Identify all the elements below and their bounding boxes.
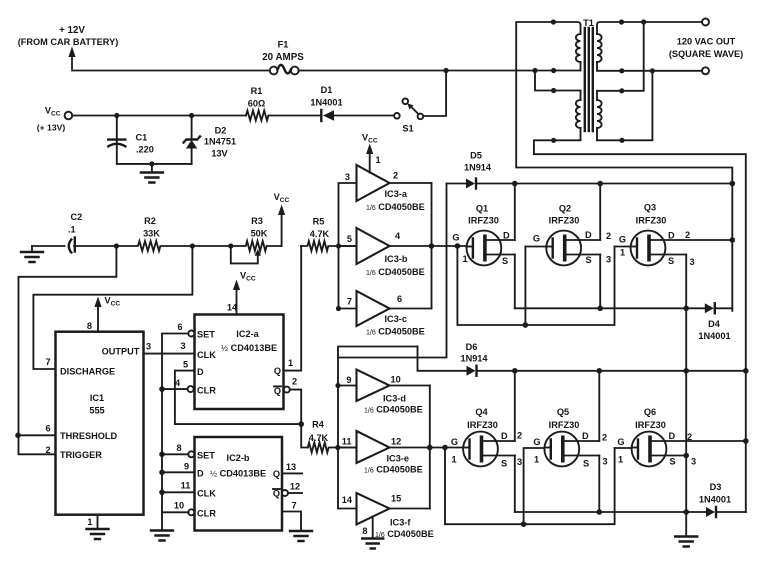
svg-text:CLK: CLK xyxy=(197,489,216,499)
wire secondary top lead to output terminal xyxy=(597,22,702,34)
svg-text:2: 2 xyxy=(45,445,50,455)
junction C1 xyxy=(114,113,119,118)
svg-text:Q1: Q1 xyxy=(476,204,488,214)
transistor Q2 IRFZ30 xyxy=(533,204,611,266)
svg-text:G: G xyxy=(533,437,540,447)
svg-text:120 VAC OUT: 120 VAC OUT xyxy=(677,37,736,47)
junction def outputs xyxy=(427,445,433,451)
wire S1 riser xyxy=(423,71,446,117)
resistor R4 4.7K xyxy=(308,420,357,453)
junction abc outputs xyxy=(429,243,435,249)
junction source tie xyxy=(683,368,689,374)
pin 10 CLR bubble xyxy=(188,509,194,515)
pin 14 Vcc arrow of IC2-a xyxy=(227,271,256,315)
winding lead dot xyxy=(551,138,556,143)
junction CLR bus xyxy=(159,386,165,392)
potentiometer R3 50K xyxy=(231,216,282,263)
svg-text:D6: D6 xyxy=(466,342,478,352)
svg-text:2: 2 xyxy=(606,231,611,241)
junction ground tie xyxy=(683,509,689,515)
wire secondary bottom winding top lead tie xyxy=(597,22,644,100)
svg-text:8: 8 xyxy=(176,443,181,453)
transformer T1 primary bottom winding xyxy=(576,100,581,128)
svg-text:IRFZ30: IRFZ30 xyxy=(549,420,580,430)
junction Q1 gate xyxy=(455,243,461,249)
ground sources xyxy=(675,537,697,547)
wire IC3 def input bus xyxy=(338,347,418,509)
svg-text:1N914: 1N914 xyxy=(464,163,492,173)
junction D2 xyxy=(189,113,194,118)
svg-text:7: 7 xyxy=(45,357,50,367)
fuse F1 xyxy=(262,40,304,75)
node 120 VAC output terminal bottom xyxy=(702,67,709,74)
switch S1 xyxy=(394,99,423,134)
svg-text:12: 12 xyxy=(290,482,300,492)
svg-text:3: 3 xyxy=(690,257,695,267)
ground IC2-b pin7 xyxy=(290,531,312,541)
svg-text:G: G xyxy=(452,233,459,243)
svg-text:13V: 13V xyxy=(211,149,228,159)
junction Q3 source xyxy=(683,306,689,312)
capacitor C2 .1 xyxy=(68,212,116,253)
pin 1 Vcc arrow of IC3 xyxy=(362,133,381,173)
wire CLR to ground bus xyxy=(162,388,188,390)
wire gate loop top row xyxy=(457,246,614,325)
wire Q2 gate riser xyxy=(525,247,546,326)
resistor R2 33K xyxy=(116,216,230,251)
svg-text:9: 9 xyxy=(346,375,351,385)
svg-text:CLK: CLK xyxy=(197,350,216,360)
buffer IC3-d xyxy=(346,370,422,415)
svg-text:IRFZ30: IRFZ30 xyxy=(635,420,666,430)
junction Q1 drain xyxy=(512,181,518,187)
svg-text:2: 2 xyxy=(393,171,398,181)
svg-text:D: D xyxy=(585,230,592,240)
svg-text:1: 1 xyxy=(620,248,625,258)
svg-text:SET: SET xyxy=(197,451,215,461)
diode D3 1N4001 xyxy=(699,482,746,517)
pin 8 Vcc arrow of IC1 xyxy=(87,296,121,332)
svg-text:1N4751: 1N4751 xyxy=(204,137,236,147)
wire gate bus Q4 xyxy=(390,447,464,449)
wire IC3-d output xyxy=(390,385,430,387)
svg-text:D: D xyxy=(668,231,675,241)
svg-text:C1: C1 xyxy=(136,133,148,143)
wire fuse to transformer center tap xyxy=(299,70,581,72)
junction SET bus xyxy=(159,452,165,458)
svg-text:3: 3 xyxy=(691,457,696,467)
wire Vcc rail xyxy=(72,115,246,117)
pin 2 Qbar bubble xyxy=(284,387,290,393)
svg-text:IC3-a: IC3-a xyxy=(385,189,408,199)
svg-text:½ CD4013BE: ½ CD4013BE xyxy=(210,469,266,479)
svg-text:IRFZ30: IRFZ30 xyxy=(549,216,580,226)
svg-text:IRFZ30: IRFZ30 xyxy=(636,216,667,226)
op IC2-b CD4013BE box xyxy=(195,437,283,531)
svg-text:3: 3 xyxy=(180,341,185,351)
svg-text:8: 8 xyxy=(87,321,92,331)
wire secondary bottom winding bottom lead tie xyxy=(597,71,652,141)
junction IC3-d input xyxy=(335,383,340,388)
pin 3 output wire 555 to IC2-a CLK xyxy=(144,353,195,355)
ground C2 xyxy=(21,246,43,262)
wire IC3-a output xyxy=(390,182,432,184)
svg-text:Q6: Q6 xyxy=(644,407,656,417)
svg-text:½ CD4013BE: ½ CD4013BE xyxy=(221,343,277,353)
wire Q4 drain riser xyxy=(514,371,516,441)
svg-text:1: 1 xyxy=(534,455,539,465)
wire CLR to bus xyxy=(162,511,188,513)
wire threshold stub xyxy=(19,434,56,436)
svg-text:TRIGGER: TRIGGER xyxy=(60,450,102,460)
winding lead dot xyxy=(551,19,556,24)
svg-text:20 AMPS: 20 AMPS xyxy=(262,52,304,63)
svg-text:1/6 CD4050BE: 1/6 CD4050BE xyxy=(366,267,425,277)
wire center tap jog xyxy=(535,71,581,91)
wire Q3 source / ground tie xyxy=(685,255,687,537)
junction D bus xyxy=(159,470,165,476)
svg-text:S: S xyxy=(502,256,508,266)
wire primary top winding bottom lead xyxy=(580,62,582,71)
junction Q4 drain xyxy=(512,368,518,374)
wire IC3-c output xyxy=(390,308,432,310)
node +12V supply arrow xyxy=(18,25,119,69)
wire IC3-b input xyxy=(339,245,357,247)
wire drain bus Q1-Q3 xyxy=(477,183,732,185)
junction center-tap jog xyxy=(532,68,537,73)
diode D6 1N914 xyxy=(460,342,488,376)
wire Q2 drain riser xyxy=(599,184,601,241)
junction R3 wiper xyxy=(228,243,233,248)
pin 1 Q output wire to R5 xyxy=(284,246,302,371)
svg-text:5: 5 xyxy=(183,360,188,370)
svg-text:(+ 13V): (+ 13V) xyxy=(37,123,66,133)
svg-text:SET: SET xyxy=(197,330,215,340)
wire Q6 gate xyxy=(615,447,632,449)
junction Q2 source xyxy=(597,306,603,312)
buffer IC3-f xyxy=(342,493,434,539)
buffer IC3-c xyxy=(347,291,425,337)
wire secondary top winding bottom lead to output terminal xyxy=(597,62,702,71)
transformer T1 primary top winding xyxy=(576,34,581,62)
wire Qbar to R4 net xyxy=(290,390,301,425)
svg-text:60Ω: 60Ω xyxy=(248,99,266,109)
svg-text:IC3-b: IC3-b xyxy=(385,254,408,264)
transformer T1 core xyxy=(583,18,594,131)
svg-text:(FROM CAR BATTERY): (FROM CAR BATTERY) xyxy=(18,37,119,47)
wire IC3 abc input bus xyxy=(339,183,357,309)
svg-text:R5: R5 xyxy=(313,217,325,227)
svg-text:D3: D3 xyxy=(710,482,722,492)
svg-text:1/6 CD4050BE: 1/6 CD4050BE xyxy=(366,202,425,212)
wire def output tie xyxy=(429,386,431,509)
svg-text:IC3-f: IC3-f xyxy=(390,518,411,528)
svg-text:3: 3 xyxy=(603,457,608,467)
wire SET to bus xyxy=(162,453,188,455)
svg-text:6: 6 xyxy=(177,322,182,332)
transistor Q1 IRFZ30 xyxy=(452,204,514,267)
junction secondary parallel tie xyxy=(650,68,655,73)
svg-text:G: G xyxy=(451,437,458,447)
svg-text:6: 6 xyxy=(397,294,402,304)
junction Q5 source xyxy=(597,509,603,515)
wire IC3-f output xyxy=(390,508,430,510)
svg-text:Q5: Q5 xyxy=(557,407,569,417)
svg-text:D: D xyxy=(197,469,204,479)
diode D5 1N914 xyxy=(447,151,492,189)
svg-text:1: 1 xyxy=(288,358,293,368)
wire gate bus Q1 xyxy=(390,245,468,247)
junction Qbar/D loop xyxy=(298,421,304,427)
junction CLK bus xyxy=(159,490,165,496)
wire source line Q1-Q3 xyxy=(515,307,705,309)
svg-text:S: S xyxy=(668,256,674,266)
junction Q6 source xyxy=(683,453,689,459)
svg-text:Q2: Q2 xyxy=(559,204,571,214)
svg-text:7: 7 xyxy=(347,297,352,307)
svg-text:1: 1 xyxy=(376,155,381,165)
svg-text:S: S xyxy=(583,459,589,469)
svg-text:S: S xyxy=(670,457,676,467)
resistor R5 4.7K xyxy=(301,217,357,252)
ground IC2 bus xyxy=(151,531,173,541)
transistor Q6 IRFZ30 xyxy=(617,407,745,467)
svg-text:1/6 CD4050BE: 1/6 CD4050BE xyxy=(366,327,425,337)
svg-text:1N4001: 1N4001 xyxy=(699,495,731,505)
pin 7 wire to ground xyxy=(282,512,301,532)
svg-text:11: 11 xyxy=(342,437,352,447)
svg-text:IC2-b: IC2-b xyxy=(227,453,250,463)
svg-text:D1: D1 xyxy=(321,85,333,95)
svg-text:OUTPUT: OUTPUT xyxy=(102,347,140,357)
junction R2-R3 xyxy=(190,243,195,248)
svg-text:1N914: 1N914 xyxy=(460,354,488,364)
junction Q4 gate xyxy=(442,445,448,451)
wire R1 to D1 xyxy=(268,115,320,117)
svg-text:1N4001: 1N4001 xyxy=(310,98,342,108)
svg-text:10: 10 xyxy=(174,501,184,511)
wire SET to ground bus xyxy=(162,334,188,531)
pin 4 CLR bubble xyxy=(188,386,194,392)
svg-text:G: G xyxy=(619,235,626,245)
wire +12V to fuse xyxy=(72,70,270,72)
svg-text:G: G xyxy=(533,234,540,244)
svg-text:12: 12 xyxy=(391,437,401,447)
wire to R4 xyxy=(301,424,308,447)
buffer IC3-b xyxy=(347,228,425,277)
wire Q2 source drop xyxy=(599,255,601,309)
svg-text:D: D xyxy=(501,431,508,441)
svg-text:R1: R1 xyxy=(251,86,263,96)
svg-text:4: 4 xyxy=(395,231,401,241)
wire D5 anode path xyxy=(338,184,447,358)
wire Q5 drain riser xyxy=(598,371,600,441)
svg-text:3: 3 xyxy=(517,457,522,467)
buffer IC3-a xyxy=(345,165,425,212)
svg-text:CLR: CLR xyxy=(197,509,216,519)
winding lead dot xyxy=(619,88,624,93)
svg-text:Q: Q xyxy=(273,489,280,499)
junction C2-R2 xyxy=(114,243,119,248)
svg-text:IC3-e: IC3-e xyxy=(387,454,409,464)
node Vcc terminal xyxy=(37,106,72,133)
junction threshold xyxy=(15,433,21,439)
svg-text:+ 12V: + 12V xyxy=(59,25,85,36)
wire IC3-d input xyxy=(338,385,357,387)
svg-text:IRFZ30: IRFZ30 xyxy=(468,216,499,226)
svg-text:13: 13 xyxy=(286,462,296,472)
transformer T1 secondary top winding xyxy=(597,34,602,62)
wire threshold/trigger net xyxy=(19,246,117,454)
wire Q5 gate riser xyxy=(524,448,545,524)
pin 12 Qbar bubble xyxy=(282,490,288,496)
wire ground to C2 xyxy=(32,245,65,247)
svg-text:T1: T1 xyxy=(583,18,594,28)
junction C1 ground xyxy=(149,161,154,166)
svg-text:8: 8 xyxy=(362,526,367,536)
svg-text:33K: 33K xyxy=(143,229,160,239)
winding lead dot xyxy=(551,88,556,93)
junction Q6 drain xyxy=(743,438,749,444)
svg-text:DISCHARGE: DISCHARGE xyxy=(60,367,115,377)
winding lead dot xyxy=(619,19,624,24)
svg-text:4.7K: 4.7K xyxy=(309,433,329,443)
svg-text:1: 1 xyxy=(618,455,623,465)
winding lead dot xyxy=(619,68,624,73)
wire drain bus Q4-Q6 xyxy=(478,370,746,372)
svg-text:15: 15 xyxy=(391,494,401,504)
pin 8 ground of IC3 xyxy=(362,517,383,549)
junction Q2 gate loop xyxy=(523,322,529,328)
svg-text:Q3: Q3 xyxy=(644,203,656,213)
svg-text:G: G xyxy=(617,437,624,447)
node 120 VAC output terminal top xyxy=(702,19,709,26)
svg-text:S: S xyxy=(586,255,592,265)
diode D4 1N4001 xyxy=(698,303,732,341)
wire IC3-e input xyxy=(338,447,357,449)
svg-text:9: 9 xyxy=(184,462,189,472)
wire D6 anode path xyxy=(418,347,467,371)
pin 13 Q stub wire xyxy=(282,472,302,474)
svg-text:50K: 50K xyxy=(251,229,268,239)
svg-text:2: 2 xyxy=(602,433,607,443)
node 120 VAC OUT label xyxy=(669,37,743,60)
svg-text:C2: C2 xyxy=(71,212,83,222)
capacitor C1 .220 xyxy=(108,116,191,164)
svg-text:IC2-a: IC2-a xyxy=(236,329,259,339)
svg-text:IC1: IC1 xyxy=(90,393,104,403)
svg-text:IC3-c: IC3-c xyxy=(385,314,407,324)
pin 6 SET bubble xyxy=(188,331,194,337)
junction secondary parallel tie xyxy=(641,19,646,24)
pin 8 SET bubble xyxy=(188,451,194,457)
svg-text:S1: S1 xyxy=(402,124,413,134)
winding lead dot xyxy=(619,138,624,143)
svg-text:D: D xyxy=(669,431,676,441)
svg-text:1/6 CD4050BE: 1/6 CD4050BE xyxy=(364,465,423,475)
svg-text:IC3-d: IC3-d xyxy=(383,394,406,404)
svg-text:3: 3 xyxy=(606,255,611,265)
wire primary top lead to drain bus Q1-Q3 xyxy=(516,22,732,311)
junction bottom bus to winding xyxy=(743,368,749,374)
wire Q1 source drop xyxy=(514,255,516,309)
svg-text:D5: D5 xyxy=(470,151,482,161)
op IC1 555 timer box xyxy=(56,332,144,515)
svg-text:2: 2 xyxy=(517,431,522,441)
svg-text:(SQUARE WAVE): (SQUARE WAVE) xyxy=(669,49,743,59)
svg-text:4: 4 xyxy=(175,378,181,388)
junction S1 riser xyxy=(444,68,449,73)
svg-text:D: D xyxy=(197,367,204,377)
svg-text:11: 11 xyxy=(181,481,191,491)
transformer T1 secondary bottom winding xyxy=(597,100,602,128)
junction Q5 gate loop xyxy=(521,521,527,527)
svg-text:14: 14 xyxy=(342,495,353,505)
svg-text:R4: R4 xyxy=(312,420,325,430)
svg-text:.220: .220 xyxy=(136,145,154,155)
svg-text:1: 1 xyxy=(452,455,457,465)
op IC2-a CD4013BE box xyxy=(195,315,284,410)
svg-text:4.7K: 4.7K xyxy=(310,229,330,239)
junction R5 output bus xyxy=(336,243,341,248)
wire abc output tie xyxy=(431,183,433,309)
svg-text:5: 5 xyxy=(347,234,352,244)
wire D feedback loop xyxy=(175,371,301,425)
buffer IC3-e xyxy=(342,431,423,475)
svg-text:Q: Q xyxy=(273,469,280,479)
svg-text:F1: F1 xyxy=(278,40,289,50)
svg-text:2: 2 xyxy=(687,432,692,442)
wire gate loop bottom row xyxy=(445,448,615,525)
svg-text:2: 2 xyxy=(685,230,690,240)
svg-text:R2: R2 xyxy=(144,216,156,226)
svg-text:THRESHOLD: THRESHOLD xyxy=(60,431,118,441)
svg-text:.1: .1 xyxy=(68,225,76,235)
wire Q4 source drop xyxy=(514,456,516,513)
transistor Q3 IRFZ30 xyxy=(619,203,732,268)
svg-text:S: S xyxy=(501,459,507,469)
wire primary bottom lead to drain bus Q4-Q6 xyxy=(534,128,746,512)
svg-text:D2: D2 xyxy=(215,126,227,136)
svg-text:3: 3 xyxy=(345,172,350,182)
winding lead dot xyxy=(551,68,556,73)
svg-text:D: D xyxy=(503,231,510,241)
svg-text:Q: Q xyxy=(274,366,281,376)
zener D2 1N4751 xyxy=(184,116,236,164)
svg-text:1N4001: 1N4001 xyxy=(698,331,730,341)
svg-text:R3: R3 xyxy=(251,216,263,226)
svg-text:2: 2 xyxy=(292,377,297,387)
junction Q3 drain xyxy=(730,237,736,243)
svg-text:3: 3 xyxy=(146,342,151,352)
svg-text:6: 6 xyxy=(45,424,50,434)
wire CLK to bus xyxy=(162,491,195,493)
svg-text:Q: Q xyxy=(274,386,281,396)
pin 12 stub wire xyxy=(288,492,302,494)
junction IC3-c input xyxy=(336,306,341,311)
junction Q2 drain xyxy=(597,181,603,187)
wire source line Q4-Q6 xyxy=(515,511,706,513)
svg-text:1: 1 xyxy=(87,517,92,527)
svg-text:555: 555 xyxy=(89,406,104,416)
diode D1 1N4001 xyxy=(310,85,394,121)
svg-text:D4: D4 xyxy=(708,319,721,329)
svg-text:CLR: CLR xyxy=(197,386,216,396)
svg-text:D: D xyxy=(582,431,589,441)
wire Q1 drain riser xyxy=(514,184,516,241)
svg-text:7: 7 xyxy=(291,501,296,511)
wire primary bottom winding top lead xyxy=(580,91,582,101)
